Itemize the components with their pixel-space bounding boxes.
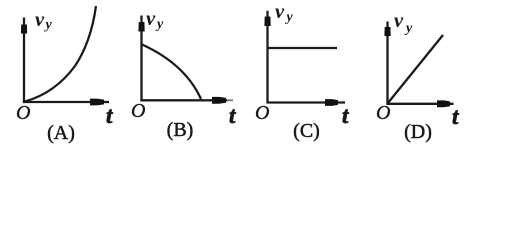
graph C t-axis — [266, 99, 345, 106]
svg-text:y: y — [155, 17, 164, 32]
svg-text:(A): (A) — [47, 122, 75, 144]
graph D straight line (proportional increase) — [388, 35, 444, 104]
svg-text:(D): (D) — [404, 121, 432, 143]
svg-text:O: O — [255, 102, 269, 124]
svg-text:t: t — [229, 103, 236, 128]
svg-text:O: O — [376, 102, 390, 124]
graph C constant line — [268, 47, 337, 49]
svg-text:(B): (B) — [167, 119, 194, 141]
svg-text:v: v — [35, 9, 45, 31]
svg-text:y: y — [404, 21, 413, 36]
graph A t-axis — [23, 99, 109, 106]
graph B curve (concave-down decreasing) — [142, 45, 201, 100]
graph B t-axis — [140, 97, 233, 104]
svg-text:v: v — [275, 1, 285, 23]
svg-text:(C): (C) — [293, 120, 320, 142]
graph C v-axis — [264, 11, 270, 103]
svg-text:t: t — [342, 103, 349, 128]
graph A label v_y — [35, 9, 53, 33]
svg-text:v: v — [146, 8, 156, 30]
svg-text:O: O — [16, 102, 30, 124]
graph D t-axis — [386, 100, 453, 107]
graph C label v_y — [275, 1, 294, 25]
svg-text:y: y — [285, 10, 294, 25]
svg-text:t: t — [106, 103, 113, 128]
svg-text:v: v — [394, 10, 404, 32]
svg-text:y: y — [44, 18, 53, 33]
graph D label v_y — [394, 10, 413, 36]
graph A curve (concave-up increasing) — [25, 6, 96, 102]
graph B label v_y — [146, 8, 164, 32]
svg-text:O: O — [131, 100, 145, 122]
graph A v-axis — [21, 18, 27, 103]
svg-text:t: t — [452, 104, 459, 129]
graph D v-axis — [384, 22, 390, 105]
graph B v-axis — [138, 16, 144, 101]
